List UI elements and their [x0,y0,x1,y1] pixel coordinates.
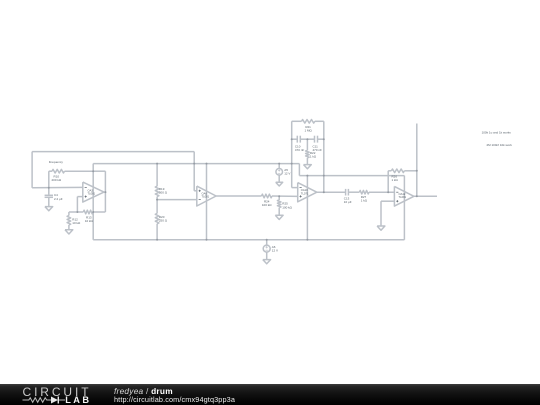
svg-text:1 kΩ: 1 kΩ [310,154,317,158]
svg-text:200 kΩ: 200 kΩ [52,178,62,182]
svg-text:100k 1u and 1k works: 100k 1u and 1k works [482,130,512,134]
svg-text:500 Ω: 500 Ω [159,190,168,194]
svg-text:TL081: TL081 [202,195,210,199]
svg-text:470 nF: 470 nF [295,148,305,152]
svg-text:10 kΩ: 10 kΩ [85,219,94,223]
svg-text:TL071: TL071 [301,191,309,195]
svg-text:12 V: 12 V [284,172,290,176]
svg-text:1 MΩ: 1 MΩ [304,129,312,133]
svg-text:1 kΩ: 1 kΩ [392,178,399,182]
svg-text:2.2 μF: 2.2 μF [54,197,63,201]
svg-text:TL081: TL081 [399,195,407,199]
svg-text:1 kΩ: 1 kΩ [361,199,368,203]
svg-text:100 kΩ: 100 kΩ [282,205,292,209]
svg-text:12 V: 12 V [272,249,278,253]
svg-text:250 Ω: 250 Ω [159,219,168,223]
svg-text:2M 100nf 10k work: 2M 100nf 10k work [487,143,513,147]
svg-text:100 kΩ: 100 kΩ [262,203,272,207]
svg-text:10 kΩ: 10 kΩ [72,221,81,225]
svg-text:TL081: TL081 [88,192,96,196]
svg-text:Frequency: Frequency [49,160,64,164]
svg-text:10 μF: 10 μF [344,200,352,204]
